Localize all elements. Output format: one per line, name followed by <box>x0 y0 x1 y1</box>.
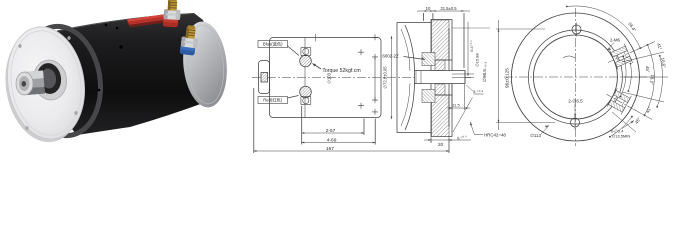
svg-text:∅98.5₋₀.₁: ∅98.5₋₀.₁ <box>482 62 487 83</box>
svg-text:2-57: 2-57 <box>326 128 336 134</box>
svg-text:6.4⁺⁰·¹: 6.4⁺⁰·¹ <box>470 40 474 52</box>
svg-text:18.2°: 18.2° <box>649 74 655 85</box>
svg-text:∅113: ∅113 <box>530 133 541 138</box>
svg-text:HRC42~48: HRC42~48 <box>484 133 506 138</box>
svg-text:Blue(蓝色): Blue(蓝色) <box>263 41 283 47</box>
svg-text:∅13.5MIN: ∅13.5MIN <box>612 133 631 138</box>
svg-text:Torque 52kgf.cm: Torque 52kgf.cm <box>322 68 360 74</box>
svg-text:4-69: 4-69 <box>327 137 337 143</box>
svg-text:∅103: ∅103 <box>327 72 332 83</box>
svg-text:10: 10 <box>426 6 431 11</box>
svg-text:45°: 45° <box>645 66 651 73</box>
svg-text:8 ⁺⁰·⁵: 8 ⁺⁰·⁵ <box>473 89 483 94</box>
svg-text:∅72.8±0.05: ∅72.8±0.05 <box>383 66 388 89</box>
svg-text:6002-2Z: 6002-2Z <box>382 53 399 58</box>
svg-text:96±0.125: 96±0.125 <box>505 68 511 88</box>
svg-text:31.5±0.5: 31.5±0.5 <box>440 6 457 11</box>
svg-text:∅15.88: ∅15.88 <box>475 52 480 66</box>
svg-text:11.5: 11.5 <box>452 103 460 108</box>
svg-text:2-M6: 2-M6 <box>610 38 621 43</box>
svg-text:20: 20 <box>438 142 444 148</box>
svg-text:167: 167 <box>326 146 334 152</box>
svg-text:2-∅6.5: 2-∅6.5 <box>568 99 583 104</box>
svg-text:Red(红色): Red(红色) <box>263 97 282 103</box>
